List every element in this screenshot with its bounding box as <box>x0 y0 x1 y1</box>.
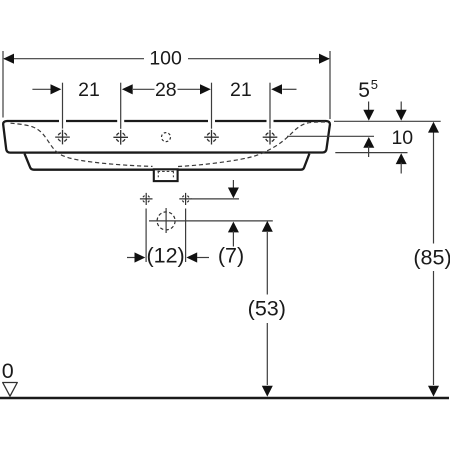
svg-text:(85): (85) <box>413 246 450 270</box>
dimension 28 line <box>133 88 201 90</box>
extension line left (100) <box>2 51 4 118</box>
dim (53) vertical line <box>266 232 268 385</box>
svg-text:21: 21 <box>78 79 100 101</box>
dim 10 down arrow <box>400 102 402 113</box>
washbasin lower bowl <box>25 154 310 170</box>
drain circle dashed <box>157 212 175 230</box>
tap hole cross 2 <box>113 130 128 145</box>
svg-text:21: 21 <box>230 79 252 101</box>
dim (85) down arrowhead <box>428 386 439 397</box>
right reference line apron bottom <box>335 152 407 154</box>
svg-text:10: 10 <box>391 127 413 149</box>
right reference line tap holes <box>287 135 374 137</box>
washbasin upper body outline <box>3 121 330 153</box>
svg-text:5: 5 <box>371 77 378 92</box>
dim (53) down arrowhead <box>262 386 273 397</box>
white gaps in top edge where extension lines cross <box>59 120 274 123</box>
dimension 100 line <box>4 58 329 60</box>
dim (53) up arrowhead <box>262 221 273 232</box>
dim (85) vertical line <box>433 133 435 386</box>
datum triangle <box>3 383 18 397</box>
extension lines for (12) <box>146 209 186 263</box>
dimension 21 left arrow <box>32 88 52 90</box>
dim (12) right arrow <box>186 252 197 262</box>
svg-text:5: 5 <box>358 79 370 102</box>
dim (85) up arrowhead <box>428 122 439 133</box>
fixing hole cross B <box>179 193 192 205</box>
floor line <box>0 397 449 399</box>
dim (12) left arrow <box>127 257 136 259</box>
tap hole cross 3 <box>204 130 219 145</box>
dim 5.5 down arrow <box>368 102 370 113</box>
svg-text:0: 0 <box>2 359 14 383</box>
dashed interior bottom curve <box>11 122 326 167</box>
svg-text:(12): (12) <box>146 244 184 268</box>
dim 5.5 up arrow <box>363 137 374 148</box>
drain box at basin bottom <box>154 169 178 181</box>
fixing hole cross A <box>140 193 153 205</box>
dimension 28 arrowheads <box>122 84 133 94</box>
dim 10 up arrow <box>396 153 407 164</box>
dim (7) down arrow <box>232 180 234 189</box>
tap hole cross 1 <box>55 130 70 145</box>
dim (7) up arrow <box>228 222 239 233</box>
right reference line top edge <box>334 120 441 122</box>
svg-text:100: 100 <box>149 47 182 69</box>
dimension 21 right arrow <box>271 84 282 94</box>
extension lines for tap hole dims <box>63 83 271 129</box>
extension line right (100) <box>329 51 331 119</box>
center dashed circle (overflow) <box>162 133 171 142</box>
svg-text:28: 28 <box>155 79 177 101</box>
drain box hidden dashed lines <box>158 171 175 178</box>
svg-text:(53): (53) <box>248 297 286 321</box>
svg-text:(7): (7) <box>218 244 244 268</box>
dimension 100 arrowheads <box>3 54 14 64</box>
tap hole cross 4 <box>263 130 278 145</box>
drain center lines <box>149 208 273 233</box>
fixing holes reference line <box>192 198 240 200</box>
